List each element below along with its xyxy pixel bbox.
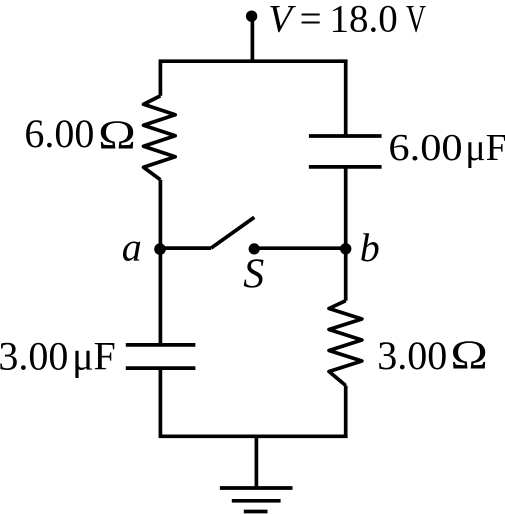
- svg-text:μF: μF: [72, 333, 116, 378]
- switch contact dot: [249, 243, 260, 254]
- wire right branch lower: [344, 386, 348, 437]
- capacitor 6.00 uF bottom plate: [309, 165, 382, 169]
- wire left branch lower (cap to bottom rail): [159, 368, 163, 436]
- wire ground stem: [255, 436, 259, 488]
- wire switch pivot lead: [160, 246, 211, 250]
- wire right branch upper: [344, 61, 348, 136]
- wire top rail: [159, 59, 348, 63]
- svg-text:3.00: 3.00: [377, 333, 447, 378]
- svg-text:V=18.0: V=18.0: [268, 0, 397, 40]
- capacitor 3.00 uF top plate: [126, 343, 196, 347]
- wire switch to node b: [254, 246, 346, 250]
- resistor R 6.00 ohm: [144, 96, 176, 180]
- wire left branch upper: [159, 61, 163, 96]
- switch S blade: [211, 217, 254, 248]
- ground: [220, 488, 293, 512]
- wire stem from V node to top rail: [251, 16, 255, 62]
- node V (battery terminal dot): [246, 11, 257, 22]
- resistor R 3.00 ohm: [329, 301, 362, 386]
- svg-text:6.00: 6.00: [24, 111, 94, 156]
- wire left branch mid (resistor to cap through node a): [159, 180, 163, 345]
- node a: [154, 243, 166, 255]
- svg-text:μF: μF: [465, 127, 505, 169]
- capacitor 3.00 uF bottom plate: [126, 366, 196, 370]
- wire right branch mid (cap to resistor through node b): [344, 167, 348, 301]
- svg-text:3.00: 3.00: [0, 333, 68, 378]
- svg-text:Ω: Ω: [450, 332, 487, 377]
- svg-text:V: V: [406, 0, 426, 41]
- svg-text:Ω: Ω: [98, 112, 136, 157]
- svg-text:b: b: [360, 225, 380, 270]
- svg-text:6.00: 6.00: [388, 126, 462, 168]
- wire bottom rail: [159, 434, 348, 438]
- svg-text:a: a: [122, 225, 142, 270]
- node b: [340, 243, 351, 254]
- svg-text:S: S: [243, 252, 264, 298]
- capacitor 6.00 uF top plate: [309, 134, 382, 138]
